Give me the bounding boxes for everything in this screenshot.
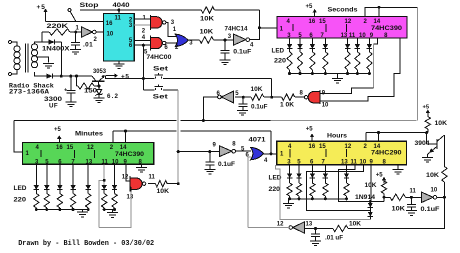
OR gate U4B 4071 [251,147,264,159]
capacitor C1 .01 [75,32,77,43]
svg-text:150: 150 [84,88,98,95]
wire R5 left [272,96,282,98]
svg-text:0.1uF: 0.1uF [251,105,268,111]
wire OR1 out [188,39,199,41]
svg-text:10K: 10K [435,121,448,127]
wire res-rail m1 [46,208,48,210]
ground seconds rail [337,74,339,79]
IC U6 74HC390 minutes body [23,143,154,165]
svg-text:13: 13 [127,195,134,201]
wire secondary center tap [36,57,49,63]
NAND gate U2D 74HC00 (minutes decode) [129,176,131,191]
inverter U3F 74HC14 [293,222,305,234]
stub U5 pin4 nc [292,24,294,31]
svg-text:4071: 4071 [249,137,267,144]
svg-text:+5: +5 [376,172,384,178]
stub U5 pin12 nc [345,24,347,32]
node rectifier [60,75,63,78]
transformer T1 primary terminal top [9,41,12,44]
resistor 220 minutes 3 [70,194,75,208]
svg-text:Seconds: Seconds [328,7,358,14]
svg-text:220: 220 [269,186,281,193]
wire U5 pin9 route [374,38,378,44]
svg-text:16: 16 [309,144,316,150]
node diode top [369,200,372,203]
node U6 pin14 [124,130,127,133]
LED minutes 4 [86,185,91,190]
svg-text:+5: +5 [54,127,62,133]
wire led-res 1 [299,49,301,52]
node R1-inverter [74,31,77,34]
wire feedback right gray [416,7,418,120]
svg-text:Set: Set [153,66,169,73]
svg-text:14: 14 [120,145,127,151]
wire 4040 Q4 to gate [134,40,150,42]
svg-text:11: 11 [102,159,109,165]
svg-text:3904: 3904 [415,141,431,147]
wire led-res h0 [289,178,291,183]
svg-text:15: 15 [67,145,74,151]
resistor R6 10K [251,94,264,100]
svg-text:11: 11 [351,160,358,166]
svg-text:LED: LED [272,48,285,55]
svg-text:6: 6 [164,45,168,51]
inverter U3C 74HC14 (minutes clock) [221,91,233,103]
wire U6 tens col 0 [103,164,105,185]
LED hours 0 [287,173,292,178]
svg-text:Stop: Stop [80,2,99,9]
svg-text:3: 3 [189,41,193,47]
stub U6 pin12 nc [93,150,95,158]
LED hours 4 [344,173,349,178]
resistor 220 seconds 0 [287,52,292,70]
wire U5 pin8 route [320,38,400,101]
svg-text:1 0K: 1 0K [280,103,295,109]
ground D3 [94,97,105,99]
stub U7 pin12 nc [345,149,347,157]
wire U6 led col 3 [72,164,74,185]
resistor 220 seconds 3 [323,52,328,70]
wire res-rail 1 [299,70,301,74]
svg-text:+5: +5 [423,105,430,111]
LED hours 1 [296,173,301,178]
ground hours rail [288,199,290,203]
wire U2A out to OR [166,22,176,36]
LED minutes 3 [70,185,75,190]
svg-text:3: 3 [171,20,175,26]
wire led-res h2 [311,178,313,183]
wire R7 to set2 node [167,183,178,185]
wire U6 led col 1 [46,164,48,185]
resistor 220 seconds 6 [367,52,372,70]
NAND gate U2B 74HC00 [149,35,151,50]
svg-text:11: 11 [149,174,156,180]
svg-text:10: 10 [112,159,119,165]
wire res-rail h0 [289,196,291,199]
node rail sec 0 [288,72,291,75]
svg-text:1: 1 [143,15,147,21]
svg-text:0.1uF: 0.1uF [233,48,251,55]
power arrow +5 diode pullup [383,180,385,183]
svg-text:10K: 10K [392,207,406,213]
svg-text:Hours: Hours [327,133,347,140]
node rail hr 2 [311,197,314,200]
node rail hr 1 [298,197,301,200]
LED hours 3 [323,173,328,178]
svg-text:2: 2 [94,37,98,43]
pushbutton S2 Set seconds [154,74,162,76]
wire U7 led col 4 [346,165,348,174]
svg-text:13: 13 [86,159,93,165]
wire minutes clock bus left [14,120,176,122]
LED seconds 5 [355,44,360,49]
resistor R11 10K [442,167,447,183]
stub U5 pin15 nc [325,24,327,32]
svg-text:12: 12 [345,144,352,150]
svg-text:10: 10 [107,31,114,37]
wire led-res 6 [368,49,370,52]
resistor R4 10K [200,37,214,43]
node rail sec 5 [356,72,359,75]
transformer T1 secondary coil [32,44,38,50]
wire U5 led col 4 [347,38,349,44]
wire invF out left [248,227,289,229]
svg-text:1N914: 1N914 [355,195,376,201]
node invE in [410,196,413,199]
ground minutes tens rail [112,210,114,213]
svg-text:13: 13 [341,160,348,166]
ground C7 [310,240,321,242]
stub U7 pin15 nc [325,149,327,157]
power arrow +5 right pullup [427,113,429,116]
resistor 220 minutes 2 [57,194,62,208]
inverter U3A 74HC14 (clock shaper) [81,27,92,38]
capacitor C7 .01uF [315,229,317,234]
wire U3B in [225,39,233,41]
wire min214 right a [126,130,177,132]
svg-text:10: 10 [431,188,438,194]
wire Stop to reset/10K [80,9,201,11]
wire 4040 pin11 reset stub [118,10,120,14]
wire led-res h3 [324,178,326,183]
ground 4040 pin8 [118,61,120,64]
LED minutes tens 0 [102,185,107,190]
node 3904 base [425,131,428,134]
svg-text:11: 11 [349,33,356,39]
resistor 220 hours 4 [344,183,349,196]
wire led-res 2 [311,49,313,52]
node zener top [98,85,101,88]
wire res-rail mt0 [103,208,105,210]
wire hours led rail [290,198,347,200]
emitter Q2 to ground [431,146,437,151]
resistor R5 10K [282,94,295,100]
wire emitter to Set buttons [106,76,144,79]
capacitor C6 0.1uF [410,197,412,204]
node rail sec 3 [324,72,327,75]
svg-text:6.2: 6.2 [107,93,119,100]
wire U3A out to 4040 pin10 [96,31,103,33]
inverter U3D 74HC14 (hours clock) [220,146,232,157]
wire U6 pin9 to gate [126,164,130,181]
wire invE out [437,196,444,198]
svg-text:220: 220 [274,57,287,64]
svg-text:74HC14: 74HC14 [225,25,249,32]
node pin11 col tap [103,179,106,182]
wire A diode top [370,201,384,203]
wire R4 to node [214,39,226,41]
wire res-rail 6 [368,70,370,74]
wire U5 led col 6 [368,38,370,44]
diode D5 1N914 [369,211,371,212]
wire min214 right b [180,130,271,132]
capacitor C2 3300uF [70,76,72,90]
ground C3 [220,59,231,61]
ground U6 pin8 [140,164,142,167]
svg-text:13: 13 [306,222,313,228]
svg-text:6: 6 [246,153,250,159]
wire R11 to invE out node [443,182,445,197]
resistor R8 10K pullup [383,180,385,181]
wire led-res 0 [289,49,291,52]
LED seconds 3 [323,44,328,49]
wire led-res mt1 [114,190,116,194]
resistor 220 seconds 4 [345,52,350,70]
wire +5 to 4040 pin16 [45,13,47,22]
svg-text:273-1366A: 273-1366A [9,89,49,96]
wire res-rail h3 [324,196,326,199]
node rail sec 4 [346,72,349,75]
LED seconds 6 [367,44,372,49]
switch S1 Stop [68,9,76,22]
svg-text:10K: 10K [157,189,170,195]
svg-text:5: 5 [235,91,239,97]
wire res-rail h1 [298,196,300,199]
wire 4040 Q5 to gate [134,24,150,26]
capacitor C5 0.1uF [209,152,211,163]
wire bus to minutes pin1 [14,121,23,152]
wire secondary top [35,42,43,44]
wire U4B out to hours pin1 [264,153,277,155]
wire led-res m4 [87,190,89,194]
resistor R3 10K (reset pullup) [201,7,214,13]
svg-text:12: 12 [122,175,129,181]
wire U6 led col 4 [87,164,89,185]
wire res-rail m2 [59,208,61,210]
wire U7 pin11 route [339,165,371,202]
wire res-rail mt1 [114,208,116,210]
svg-text:Set: Set [153,93,169,100]
capacitor C4 0.1uF [242,97,244,104]
wire U5 led col 1 [299,38,301,44]
node set1 [142,77,145,80]
wire U7 led col 0 [289,165,291,174]
svg-text:15: 15 [319,144,326,150]
ground center tap [43,63,54,65]
node invE out [443,196,446,199]
svg-text:15: 15 [319,19,326,25]
ground C5 [204,168,215,170]
svg-text:Drawn by - Bill Bowden - 03/30: Drawn by - Bill Bowden - 03/30/02 [18,240,154,248]
node rail min 4 [87,208,90,211]
inverter U3E 74HC14 [421,192,433,203]
svg-text:4040: 4040 [113,2,130,9]
node set line on pin6 wire [142,44,145,47]
wire min214 drop to hours clock [270,131,272,154]
wire set1 drop [271,79,273,98]
wire minutes led rail [36,209,88,211]
OR gate U4A 4071 [175,34,188,46]
svg-text:10K: 10K [349,221,362,227]
wire res-rail 0 [289,70,291,74]
node reset [117,9,120,12]
zener D3 6.2V [98,86,100,90]
power arrow +5 seconds [314,12,316,16]
wire res-rail h2 [311,196,313,199]
resistor R1 220K [41,32,43,42]
svg-text:10K: 10K [200,29,214,36]
wire U6 led col 2 [59,164,61,185]
wire U5 led col 0 [289,38,291,44]
wire DC rail [61,75,92,77]
wire 4040 Q6 to gate [134,18,150,20]
svg-text:LED: LED [14,185,28,192]
svg-text:74HC390: 74HC390 [371,25,403,32]
wire led-res m1 [46,190,48,194]
wire invD in [210,151,220,153]
wire U7 led col 2 [311,165,313,174]
svg-text:10K: 10K [200,15,215,22]
ground C2 [65,101,76,103]
wire 4040 Q3 to gate [134,44,150,46]
wire secondary bottom [35,72,43,76]
svg-text:220K: 220K [47,23,69,30]
node 3300uF tap [69,75,72,78]
node U7 pin14 [377,131,380,134]
wire led-res 3 [324,49,326,52]
wire diode node to R9 [383,197,385,201]
svg-text:12: 12 [277,222,284,228]
transistor Q1 2N3053 [92,80,105,82]
inverter U3B 74HC14 [233,34,246,45]
node minutes tens rail [103,208,106,211]
wire led-res h4 [346,178,348,183]
svg-text:12: 12 [345,19,352,25]
wire U7 pin10 route [307,165,371,211]
IC U7 74HC290 hours body [277,141,407,165]
ground C1 [70,49,81,51]
wire feedback bottom [348,197,444,228]
power rail +5 arrow (top left) [45,12,47,15]
resistor 220 seconds 1 [297,52,302,70]
wire U3B out up [250,10,260,40]
resistor R10 10K pullup right [427,116,429,117]
node rail min 0 [35,208,38,211]
node hours clock [270,152,273,155]
svg-text:11: 11 [410,188,417,194]
wire U6 led col 0 [35,164,37,185]
svg-text:2: 2 [142,29,146,35]
resistor R9 10K [390,194,406,200]
svg-text:16: 16 [106,21,113,27]
svg-text:1N400X: 1N400X [42,46,70,53]
wire U7 214 to 3904 base node [379,132,427,134]
wire C diode bottom gray [276,165,371,220]
node rail hr 0 [288,197,291,200]
svg-text:UF: UF [49,102,58,109]
svg-text:.01: .01 [83,41,93,48]
wire res-rail h4 [346,196,348,199]
LED minutes 1 [44,185,49,190]
resistor 220 seconds 2 [310,52,315,70]
resistor 220 minutes tens 0 [101,194,106,208]
transformer T1 primary terminal bottom [9,73,12,76]
node rail hr 4 [345,197,348,200]
svg-text:1: 1 [76,26,80,32]
wire U5 led col 3 [324,38,326,44]
svg-text:11: 11 [115,16,122,22]
resistor 220 hours 1 [296,183,301,196]
wire primary bottom [12,70,18,74]
wire res-rail m0 [35,208,37,210]
transistor Q2 3904 [426,133,428,144]
ground U7 pin8 [397,165,399,170]
wire U7 pins2+14 tie [365,133,367,142]
wire invD out [236,150,251,152]
wire U6 tens col 1 [114,164,116,185]
node set2-R7 [177,182,180,185]
wire to seconds pin1 [259,27,277,29]
wire minutes clock bus right [180,120,270,122]
svg-text:4: 4 [250,43,254,49]
resistor 220 seconds 5 [355,52,360,70]
LED seconds 4 [345,44,350,49]
svg-text:3: 3 [228,34,232,40]
diode D4 1N914 [368,203,373,208]
svg-text:0.1uF: 0.1uF [218,162,235,168]
svg-text:+5: +5 [121,73,130,80]
resistor 220 minutes tens 1 [112,194,117,208]
wire set2 node to invD [178,151,210,153]
svg-text:8: 8 [300,90,304,96]
LED seconds 0 [287,44,292,49]
IC U1 4040 body [103,14,134,62]
svg-text:+5: +5 [37,4,46,11]
svg-text:10: 10 [359,33,366,39]
svg-text:+5: +5 [306,4,314,10]
svg-text:.01 uF: .01 uF [325,236,343,242]
node U5 pin14 [378,6,381,9]
wire U6 pins2+14 tie [112,131,114,143]
resistor R7 10K [155,181,167,187]
wire U5 led col 2 [311,38,313,44]
diode D1 1N400X [42,41,49,43]
svg-text:0.1uF: 0.1uF [421,207,440,213]
node rail min 2 [58,208,61,211]
svg-text:220: 220 [14,197,27,204]
ground C4 [237,110,248,112]
wire primary top [12,42,18,46]
ground C6 [406,210,417,212]
node rail sec 6 [368,72,371,75]
wire res-rail m4 [87,208,89,210]
svg-text:14: 14 [374,19,381,25]
diode D2 1N400X [42,75,47,77]
pushbutton S3 Set minutes [154,86,162,88]
capacitor C3 0.1uF [224,40,226,50]
LED minutes tens 1 [112,185,117,190]
node invC in [242,96,245,99]
